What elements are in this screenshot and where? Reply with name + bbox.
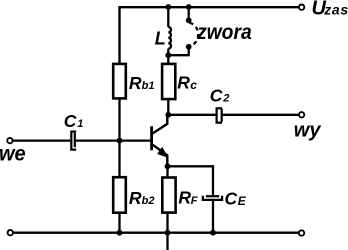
svg-text:R: R <box>129 188 142 208</box>
junction L bottom <box>165 52 171 58</box>
junction collector node <box>165 112 171 118</box>
terminal output wy <box>299 112 304 117</box>
wire zwora bottom to L bottom <box>168 47 188 55</box>
transistor Q1 collector lead <box>153 115 168 134</box>
wire RF bottom to ground rail <box>166 213 168 233</box>
label CE <box>225 189 247 209</box>
junction top node at zwora branch <box>186 4 192 10</box>
svg-text:R: R <box>178 188 191 208</box>
svg-text:1: 1 <box>77 118 83 130</box>
label Uzas <box>312 0 348 20</box>
wire Rc bottom to collector node <box>167 99 169 115</box>
resistor Rb1 <box>113 64 126 99</box>
capacitor CE <box>203 196 222 200</box>
label RF <box>178 188 197 208</box>
inductor L <box>168 7 171 55</box>
capacitor C1 <box>71 132 76 150</box>
svg-text:C: C <box>64 111 77 131</box>
svg-text:C: C <box>225 189 238 209</box>
svg-text:L: L <box>155 29 166 49</box>
svg-text:E: E <box>238 194 247 208</box>
svg-text:R: R <box>177 73 190 93</box>
jumper zwora (dashed arc) <box>189 23 198 46</box>
junction CE at ground rail <box>210 230 216 236</box>
terminal Uzas <box>299 5 304 10</box>
svg-text:R: R <box>129 73 142 93</box>
terminal bottom left <box>8 230 13 235</box>
wire top supply rail <box>118 6 298 64</box>
svg-text:we: we <box>0 142 26 166</box>
svg-text:zwora: zwora <box>196 22 252 45</box>
label Rb2 <box>129 188 155 208</box>
wire emitter node to RF <box>166 166 168 177</box>
label Rb1 <box>129 73 155 93</box>
wire Rb2 bottom to ground rail <box>118 213 120 233</box>
junction RF at ground rail <box>165 230 171 236</box>
wire base node to Rb2 <box>118 141 120 178</box>
svg-text:zas: zas <box>323 2 348 18</box>
label C1 <box>64 111 84 131</box>
svg-text:F: F <box>191 195 198 207</box>
resistor Rc <box>162 64 175 99</box>
junction Rb2 at ground rail <box>117 230 123 236</box>
wire CE to ground rail <box>212 201 214 233</box>
svg-text:b1: b1 <box>142 80 155 92</box>
svg-text:2: 2 <box>222 93 229 105</box>
resistor Rb2 <box>113 177 126 213</box>
label Rc <box>177 73 197 93</box>
junction base node <box>117 138 123 144</box>
svg-text:C: C <box>210 86 223 106</box>
wire bottom ground rail <box>14 232 299 234</box>
transistor Q1 emitter arrow <box>158 148 167 156</box>
svg-text:c: c <box>190 78 197 92</box>
wire input to C1 <box>13 139 70 141</box>
terminal bottom right <box>299 230 304 235</box>
wire collector to C2 <box>168 114 215 116</box>
wire C2 to output <box>223 114 298 116</box>
wire zwora top stub <box>188 7 190 20</box>
junction emitter node <box>165 163 171 169</box>
wire L bottom to Rc <box>167 55 169 64</box>
wire emitter node to CE branch <box>168 166 214 195</box>
svg-text:wy: wy <box>294 120 322 142</box>
capacitor C2 <box>217 108 222 122</box>
resistor RF <box>162 178 175 213</box>
wire C1 to base <box>76 139 152 141</box>
label C2 <box>210 86 230 106</box>
junction zwora top <box>186 17 192 23</box>
svg-text:b2: b2 <box>142 195 155 207</box>
transistor Q1 base bar <box>150 126 153 150</box>
junction top node at L branch <box>165 4 171 10</box>
junction zwora bottom <box>186 44 192 50</box>
transistor Q1 emitter lead <box>153 145 168 166</box>
wire Rb1 bottom to base node <box>118 98 120 140</box>
wire ground stub to edge <box>166 233 168 250</box>
terminal input we <box>7 138 12 143</box>
